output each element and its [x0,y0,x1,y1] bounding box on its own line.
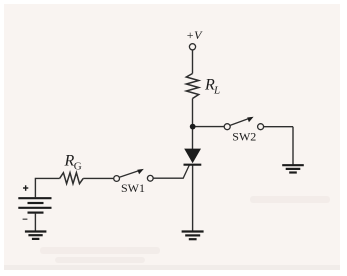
svg-text:SW1: SW1 [121,181,145,195]
svg-text:L: L [213,85,220,97]
svg-text:G: G [74,160,82,172]
svg-text:SW2: SW2 [232,129,256,143]
svg-text:+V: +V [186,28,203,42]
